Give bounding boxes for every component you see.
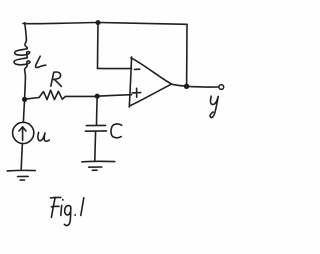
ground under capacitor [82, 161, 115, 170]
resistor R [25, 90, 97, 99]
current source u circle [13, 122, 34, 143]
op-amp U1 [129, 57, 171, 107]
wire capacitor node down to top plate [96, 96, 99, 125]
label u [38, 132, 49, 141]
output terminal circle [219, 85, 224, 90]
label R [51, 72, 62, 86]
wire feedback vertical from top dot to minus level [97, 23, 100, 69]
ground under source [7, 170, 35, 180]
op-amp minus pin label [134, 68, 139, 70]
current source arrow [19, 127, 26, 141]
label L [36, 56, 46, 67]
caption Fig. 1 : F [51, 197, 61, 217]
wire left node down to current source [23, 99, 24, 122]
junction dot capacitor node [95, 94, 100, 99]
wire op-amp output to node [171, 84, 186, 86]
wire top-left vertical down to inductor [25, 23, 27, 40]
label C [111, 124, 122, 138]
wire right vertical from top wire to output node [186, 24, 188, 86]
label y [210, 96, 218, 117]
wire top horizontal left segment [23, 23, 98, 24]
junction dot left node [22, 97, 27, 102]
wire plus input horizontal [97, 95, 131, 97]
wire output to terminal [187, 85, 219, 88]
wire minus input horizontal [98, 67, 132, 69]
caption Fig. 1 : numeral 1 [81, 198, 84, 216]
capacitor C plates [85, 125, 106, 131]
output node dot [184, 84, 189, 89]
op-amp plus pin label [132, 88, 141, 97]
caption Fig. 1 : period [74, 214, 76, 216]
wire capacitor bottom plate to ground [94, 131, 97, 161]
inductor L [14, 40, 30, 85]
caption Fig. 1 : i [61, 200, 63, 216]
wire current source to ground [21, 144, 22, 170]
node junction dot feedback tap [96, 20, 101, 25]
wire top horizontal right segment [98, 23, 187, 25]
wire inductor bottom to left node [24, 85, 27, 100]
caption Fig. 1 : g [64, 206, 70, 226]
